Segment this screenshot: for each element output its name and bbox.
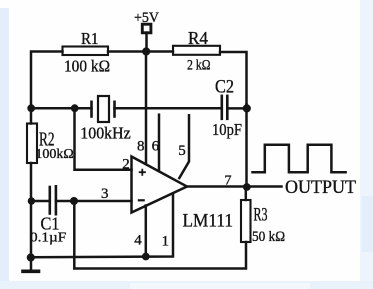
svg-text:LM111: LM111 <box>183 210 234 231</box>
capacitor C2 right plate <box>226 96 229 119</box>
svg-text:+5V: +5V <box>134 10 159 26</box>
op-amp U1 LM111 triangle <box>132 157 188 213</box>
svg-text:R4: R4 <box>188 28 208 48</box>
svg-text:2 kΩ: 2 kΩ <box>187 57 211 73</box>
resistor R2 <box>27 124 37 164</box>
svg-text:C2: C2 <box>215 77 234 97</box>
wire pin 1 down to ground bus <box>31 194 173 258</box>
node X left <box>27 104 35 112</box>
wire R4 right then down to C2 node <box>220 52 247 105</box>
wire +5V terminal down to rail <box>145 33 148 52</box>
svg-text:100kHz: 100kHz <box>80 123 131 142</box>
svg-text:3: 3 <box>101 186 109 202</box>
resistor R3 <box>241 200 251 242</box>
+5V terminal square <box>142 24 151 33</box>
svg-text:100kΩ: 100kΩ <box>35 147 73 162</box>
svg-text:2: 2 <box>122 157 130 173</box>
crystal Y1 body <box>98 96 109 122</box>
op-amp minus sign <box>138 199 145 201</box>
svg-text:100 kΩ: 100 kΩ <box>64 56 110 75</box>
svg-text:7: 7 <box>225 174 232 189</box>
svg-text:5: 5 <box>178 143 186 159</box>
svg-text:R1: R1 <box>81 29 99 48</box>
crystal Y1 100kHz left plate <box>90 102 93 117</box>
wire C2 node down to output node <box>245 105 248 188</box>
resistor R1 <box>63 47 109 56</box>
wire pin 4 down to ground bus <box>145 206 148 257</box>
node C1 left <box>28 197 35 204</box>
svg-text:OUTPUT: OUTPUT <box>285 178 356 198</box>
wire crystal node down to pin 2 <box>75 108 132 170</box>
node C1 right / pin3 <box>70 197 78 205</box>
svg-text:6: 6 <box>152 139 160 155</box>
op-amp plus sign <box>139 169 146 176</box>
svg-text:8: 8 <box>137 139 145 155</box>
wire node X to crystal <box>31 107 92 110</box>
wire pin 5 stub <box>179 115 189 178</box>
wire crystal right to C2 left <box>115 107 222 110</box>
wire pin 6 stub <box>158 115 161 170</box>
ground <box>30 258 33 270</box>
wire C2 right to node <box>227 107 246 110</box>
capacitor C1 right plate <box>55 186 58 214</box>
wire pin3 node down and across to R3 bottom <box>74 201 246 269</box>
wire output (pin 7) <box>187 185 282 188</box>
node crystal / pin2 <box>71 104 79 112</box>
svg-text:4: 4 <box>134 233 142 249</box>
wire left rail upper (node X down to R2) <box>30 108 33 124</box>
node pin4 ground bus <box>142 253 150 261</box>
wire C1 right to pin3 node <box>56 200 74 203</box>
wire pin 8 vertical (+5V down to op-amp top edge) <box>145 52 148 165</box>
crystal Y1 right plate <box>113 102 116 117</box>
svg-text:1: 1 <box>162 234 170 250</box>
svg-text:50 kΩ: 50 kΩ <box>252 229 285 245</box>
capacitor C1 left plate <box>48 187 51 214</box>
wire left rail lower (C1 node to ground node) <box>30 201 33 258</box>
capacitor C2 left plate <box>221 96 224 119</box>
node output / R3 top <box>243 183 251 191</box>
wire C1 node to pin 3 <box>31 200 50 203</box>
svg-text:0.1µF: 0.1µF <box>30 231 66 246</box>
wire pin3 node to op-amp inverting input <box>74 200 131 203</box>
wire R1 right to supply junction <box>108 50 173 53</box>
resistor R4 <box>173 46 220 55</box>
wire top rail left (+5V node to R1 left via corner) <box>31 52 63 109</box>
node supply junction <box>142 47 150 55</box>
svg-text:R3: R3 <box>254 205 268 226</box>
svg-text:10pF: 10pF <box>212 120 242 139</box>
node ground <box>27 253 35 261</box>
waveform square wave <box>253 145 346 172</box>
wire left rail mid (R2 bottom to C1 node) <box>30 163 33 201</box>
wire R3 top to output node <box>245 187 248 200</box>
node C2 right <box>243 104 251 112</box>
